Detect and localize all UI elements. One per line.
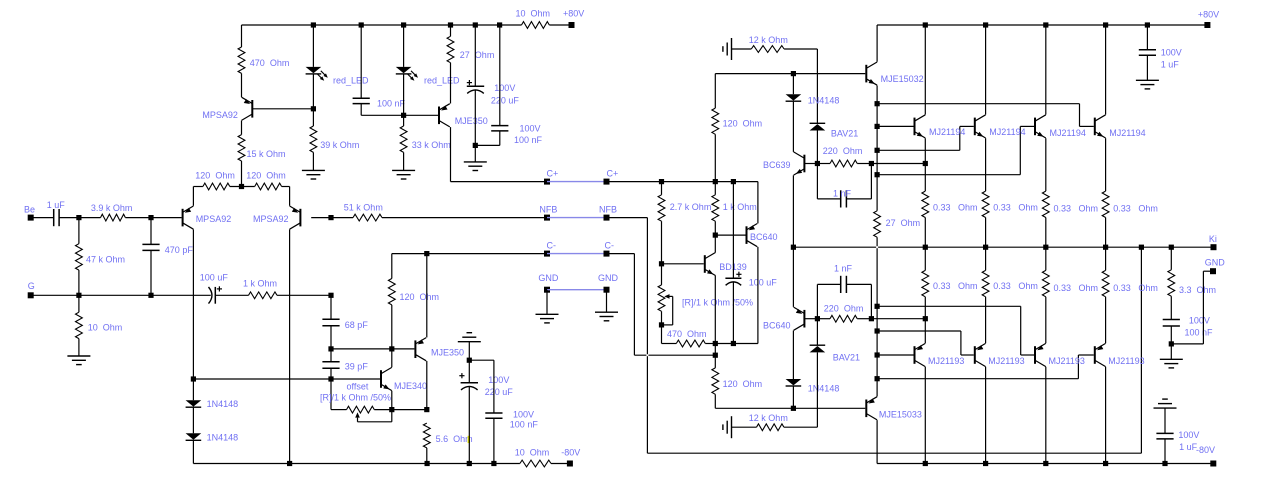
power terminal +80V (top left)	[563, 8, 584, 28]
resistor 47 k Ohm	[76, 244, 126, 270]
resistor 220 Ohm (top)	[823, 146, 863, 167]
ground (12k top, sideways)	[723, 38, 732, 60]
wire 2.7k to BD139 base node	[661, 221, 663, 264]
wire Ki to 3.3	[1170, 247, 1172, 270]
wire MJ21193 1 collector down	[924, 367, 926, 464]
wire 100uF to bias bottom	[732, 282, 734, 344]
wire 220 right	[857, 163, 871, 165]
wire Be to 1uF	[31, 217, 54, 219]
wire LED2 to node	[403, 74, 405, 115]
power terminal +80V (right)	[1198, 9, 1219, 28]
wire 1N4148b to base row	[792, 387, 794, 409]
highlight artifact (yellow)	[468, 436, 470, 443]
svg-text:0.33 Ohm: 0.33 Ohm	[1054, 204, 1099, 214]
wire 120 to base row bottom	[714, 394, 716, 408]
wire rail to -80V terminal	[551, 463, 570, 465]
svg-text:39 pF: 39 pF	[345, 362, 369, 372]
junction 68pF/VAS node	[328, 346, 333, 351]
wire MJE15032 collector to rail	[876, 25, 878, 62]
wire BD139 emitter down	[714, 276, 716, 344]
wire 15k to tail node	[241, 161, 243, 187]
junction Ki/col4	[1103, 245, 1108, 250]
ground (input)	[67, 356, 90, 365]
junction comp node	[328, 293, 333, 298]
diode BAV21 (top)	[810, 123, 859, 138]
wire rail to LED2	[403, 25, 405, 67]
svg-text:51 k Ohm: 51 k Ohm	[344, 203, 383, 213]
junction Ki/col2	[983, 245, 988, 250]
svg-text:120 Ohm: 120 Ohm	[723, 379, 763, 389]
wire 1uF to rail	[1164, 439, 1166, 464]
svg-text:-80V: -80V	[561, 448, 580, 458]
junction diff collector/base row	[191, 376, 196, 381]
ground (GND right)	[595, 312, 618, 321]
junction lower base 1	[875, 352, 880, 357]
wire node to ground	[1170, 344, 1172, 359]
capacitor 68 pF	[322, 319, 368, 330]
svg-text:5.6 Ohm: 5.6 Ohm	[436, 434, 473, 444]
capacitor 100 nF (top left)	[353, 98, 406, 108]
junction rail/Q5 collector	[287, 461, 292, 466]
ground (GND left)	[536, 314, 559, 323]
wire +80V rail (left)	[242, 24, 522, 26]
wire BC640 collector down	[757, 247, 759, 344]
wire 68pF to node	[330, 326, 332, 349]
wire between diodes	[192, 408, 194, 434]
resistor 2.7 k Ohm	[658, 195, 711, 221]
wire C- node to 120 bottom	[714, 355, 716, 368]
input terminal Be	[24, 205, 35, 221]
wire 100nF to LED2 node	[361, 114, 403, 116]
junction emitter/base 1	[875, 124, 880, 129]
wire MJ21193 4 emitter up	[1105, 297, 1107, 343]
output terminal Ki	[1209, 234, 1217, 250]
label [R]/1 k Ohm /50% (offset pot)	[320, 392, 391, 402]
junction BD139 collector node	[713, 233, 718, 238]
wire MJE340 emitter down	[391, 391, 393, 410]
svg-text:0.33 Ohm: 0.33 Ohm	[933, 281, 978, 291]
resistor 10 Ohm (+80V feed, top)	[516, 8, 551, 28]
svg-text:1 nF: 1 nF	[834, 264, 853, 274]
resistor 0.33 Ohm (top 4)	[1102, 191, 1158, 217]
wire comp node down	[330, 295, 332, 319]
ground (33k)	[392, 170, 415, 179]
wire rail to LED1	[312, 25, 314, 67]
ground (inverted, -80V cap)	[1154, 399, 1177, 408]
wire BD139 base row	[662, 263, 704, 265]
wire MJE350 emitter up	[426, 254, 428, 338]
wire offset node to pot	[331, 409, 347, 411]
wire 0.33 4 to Ki	[1105, 247, 1107, 270]
svg-text:GND: GND	[1205, 257, 1226, 267]
transistor MJ21193 Q19	[1095, 343, 1145, 366]
wire node to 47k	[78, 218, 80, 244]
svg-text:470 Ohm: 470 Ohm	[250, 58, 290, 68]
wire 27 Ohm through Ki to lower dots	[876, 237, 878, 306]
wire C- row	[392, 253, 547, 255]
wire 100nF to gnd node	[1170, 326, 1172, 344]
resistor 10 Ohm (-80V feed, bottom left)	[515, 448, 551, 467]
wire emitter row right	[282, 186, 290, 188]
transistor BD139 Q8 (bias spreader)	[705, 252, 747, 275]
svg-text:MJE350: MJE350	[431, 348, 464, 358]
transistor MJ21193 Q17	[975, 343, 1025, 366]
svg-text:red_LED: red_LED	[424, 76, 460, 86]
wire LED1 to base node	[312, 74, 314, 109]
wire BD139 collector up	[714, 235, 716, 252]
svg-text:0.33 Ohm: 0.33 Ohm	[1113, 283, 1158, 293]
wire node to ground	[474, 145, 476, 162]
svg-text:MPSA92: MPSA92	[196, 214, 232, 224]
ground (Zobel)	[1160, 359, 1183, 368]
wire rail to 470 Ohm	[241, 25, 243, 47]
wire node to 33k	[403, 115, 405, 126]
junction C+/1k	[713, 179, 718, 184]
wire gnd to 12kb	[732, 426, 757, 428]
junction rail/col4	[1103, 22, 1108, 27]
wire MJE350 collector down	[426, 361, 428, 410]
wire G to 10 Ohm	[78, 295, 80, 312]
junction railb/col1	[923, 461, 928, 466]
junction 220b/1nF right	[869, 316, 874, 321]
wire offset node down	[330, 379, 332, 410]
junction rail/5.6	[425, 461, 430, 466]
capacitor 1 uF 100V (-80V)	[1156, 430, 1199, 452]
wire BC639 base	[804, 163, 817, 165]
svg-text:27 Ohm: 27 Ohm	[886, 218, 921, 228]
ground (39k)	[302, 170, 325, 179]
svg-text:0.33 Ohm: 0.33 Ohm	[993, 281, 1038, 291]
capacitor 1 nF (top)	[833, 189, 852, 208]
svg-text:MPSA92: MPSA92	[202, 110, 238, 120]
resistor 12 k Ohm (top)	[749, 35, 788, 53]
resistor 27 Ohm (top)	[447, 36, 494, 62]
wire BC639 emitter down	[792, 175, 794, 247]
wire BC640L base	[804, 318, 817, 320]
svg-text:BC640: BC640	[763, 321, 791, 331]
resistor 120 Ohm (VAS load)	[388, 279, 439, 305]
wire pot to MJE340 emitter node	[374, 409, 392, 411]
resistor 3.3 Ohm (Zobel)	[1168, 270, 1216, 296]
wire NFB right	[607, 217, 648, 219]
wire NFB down	[646, 218, 648, 454]
net terminal C- (right)	[604, 241, 615, 257]
wire 3.9k to base node	[125, 217, 181, 219]
svg-text:100 nF: 100 nF	[1185, 328, 1214, 338]
svg-text:220 Ohm: 220 Ohm	[823, 146, 863, 156]
junction rail/col2	[983, 22, 988, 27]
power terminal -80V (right)	[1196, 445, 1216, 467]
transistor MJ21194 Q14	[1035, 115, 1086, 138]
junction top rail / LED1	[311, 22, 316, 27]
wire +80V rail (left, after 10 Ohm)	[549, 24, 571, 26]
junction railb/1uF	[1162, 461, 1167, 466]
transistor BC640 Q9 (upper)	[747, 224, 778, 247]
junction MJE350 emitter/C-	[424, 251, 429, 256]
svg-text:3.3 Ohm: 3.3 Ohm	[1179, 285, 1216, 295]
resistor 12 k Ohm (bottom)	[749, 413, 788, 431]
resistor 0.33 Ohm (top 2)	[982, 191, 1038, 217]
wire 100nF down	[360, 104, 362, 116]
wire 0.33 1 to Ki rail	[924, 218, 926, 248]
svg-text:+80V: +80V	[563, 8, 584, 18]
wire rail to 220uF	[474, 25, 476, 86]
svg-text:100 uF: 100 uF	[749, 278, 778, 288]
junction 5.6 node	[424, 407, 429, 412]
net terminal C+ (left)	[544, 169, 558, 185]
wire 1nF right leg	[870, 164, 872, 199]
svg-text:NFB: NFB	[599, 205, 617, 215]
capacitor 220 uF 100V (top, polarized)	[467, 80, 520, 106]
wire 220uF to rail	[468, 386, 470, 463]
junction 220 node/emitter col1	[923, 161, 928, 166]
wire MJE15032 emitter down	[876, 85, 878, 210]
svg-text:-80V: -80V	[1196, 445, 1215, 455]
svg-text:MJ21194: MJ21194	[989, 127, 1025, 137]
wire VAS node row	[331, 348, 414, 350]
capacitor 100 nF 100V (bottom)	[485, 409, 538, 429]
svg-text:[R]/1 k Ohm /50%: [R]/1 k Ohm /50%	[320, 392, 391, 402]
capacitor 100 uF (feedback shunt, polarized)	[200, 273, 229, 304]
svg-text:MJ21194: MJ21194	[1050, 128, 1086, 138]
wire 220b node to BAV21	[816, 319, 818, 346]
wire 0.33 3 to Ki rail	[1045, 218, 1047, 248]
wire 1N4148 to BC639 collector	[792, 102, 794, 152]
ground terminal G	[28, 281, 35, 298]
wire 39k to ground	[312, 152, 314, 170]
wire NFB up to Ki	[1140, 247, 1142, 453]
wire 0.33 2 to Ki rail	[985, 218, 987, 248]
junction offset node	[328, 376, 333, 381]
net terminal NFB (right)	[599, 205, 617, 221]
wire 12kb right	[784, 426, 818, 428]
svg-text:2.7 k Ohm: 2.7 k Ohm	[670, 202, 712, 212]
resistor 1 k Ohm (feedback)	[243, 279, 277, 299]
wire Zobel to GND link	[1171, 343, 1203, 345]
wire node to 5.6 node	[392, 409, 427, 411]
junction tail node	[239, 184, 244, 189]
svg-text:47 k Ohm: 47 k Ohm	[86, 255, 125, 265]
net terminal GND (output)	[1205, 257, 1226, 274]
wire 120 top corner	[714, 74, 716, 109]
wire BAV21b down	[816, 352, 818, 427]
wire rail4 down	[1079, 104, 1081, 127]
wire rail3 to base	[1020, 125, 1034, 127]
junction C- bias node	[713, 353, 718, 358]
svg-text:0.33 Ohm: 0.33 Ohm	[993, 203, 1038, 213]
net terminal C- (left)	[544, 241, 556, 257]
svg-text:470 Ohm: 470 Ohm	[667, 329, 707, 339]
junction G/470pF	[148, 293, 153, 298]
svg-text:0.33 Ohm: 0.33 Ohm	[1113, 204, 1158, 214]
svg-text:68 pF: 68 pF	[345, 320, 369, 330]
wire rail4b up	[1077, 355, 1079, 379]
net wire C+ (highlighted)	[547, 181, 607, 183]
wire MJ21194 4 emitter	[1105, 138, 1107, 191]
transistor MJ21193 Q18	[1035, 343, 1085, 366]
wire MJ21193 3 emitter up	[1045, 297, 1047, 343]
svg-text:C+: C+	[607, 169, 619, 179]
wire gnd to 12k	[732, 48, 752, 50]
svg-text:BAV21: BAV21	[833, 353, 860, 363]
wire 0.33 1 to Ki	[924, 247, 926, 270]
transistor MJE15032 Q11 (driver NPN)	[866, 62, 923, 85]
wire 120 to C+	[714, 134, 716, 181]
svg-text:0.33 Ohm: 0.33 Ohm	[1054, 283, 1099, 293]
svg-text:MJE350: MJE350	[455, 116, 488, 126]
resistor 120 Ohm (diff right)	[246, 171, 286, 190]
wire base node to pot	[661, 264, 663, 285]
svg-text:1 uF: 1 uF	[1179, 442, 1198, 452]
wire bias rows link	[714, 344, 716, 356]
junction top rail / 100nF	[359, 22, 364, 27]
wire 470 Ohm to Q1 emitter	[241, 73, 243, 97]
wire Q3 collector to C+ row	[450, 127, 452, 182]
wire C+ to 2.7k	[661, 182, 663, 195]
junction rail/100nF	[491, 461, 496, 466]
wire 33k to ground	[403, 152, 405, 170]
ground (+80V cap)	[1136, 80, 1159, 89]
wire MJ21193 2 collector down	[985, 367, 987, 464]
svg-text:470 pF: 470 pF	[165, 245, 194, 255]
ground (decoupling top)	[464, 162, 487, 171]
svg-text:BAV21: BAV21	[831, 129, 858, 139]
wire base rail 2 (top)	[877, 149, 960, 151]
capacitor 1 uF (input)	[47, 200, 66, 226]
wire node to 220uF	[468, 360, 470, 383]
net terminal C+ (right)	[604, 169, 619, 185]
wire rail3b down	[1020, 306, 1022, 355]
transistor MJ21194 Q13	[975, 115, 1026, 138]
wire MJ21194 2 collector	[985, 25, 987, 115]
junction C+/100uF	[731, 179, 736, 184]
svg-text:MJE340: MJE340	[394, 381, 427, 391]
wire MJ21193 2 emitter up	[985, 297, 987, 343]
svg-text:1N4148: 1N4148	[808, 384, 840, 394]
svg-text:27 Ohm: 27 Ohm	[460, 50, 495, 60]
svg-text:100 nF: 100 nF	[510, 420, 539, 430]
wire MJ21194 1 collector	[924, 25, 926, 115]
svg-text:120 Ohm: 120 Ohm	[723, 119, 763, 129]
wire corner to 470	[662, 343, 677, 345]
junction base row/1N4148b	[791, 406, 796, 411]
net wire C- (highlighted)	[547, 253, 607, 255]
junction LED2 node	[401, 113, 406, 118]
wire C- right	[607, 253, 635, 255]
svg-text:MJ21194: MJ21194	[1109, 128, 1145, 138]
wire 1uF to ground	[1146, 55, 1148, 80]
wire 470 to bias node	[705, 343, 715, 345]
wire 10 Ohm to ground	[78, 339, 80, 356]
wire 3.3 to 100nF	[1170, 296, 1172, 319]
resistor 10 Ohm (input gnd)	[76, 312, 123, 338]
no-connect crossing (white)	[876, 246, 878, 248]
wire MJ21194 3 collector	[1045, 25, 1047, 115]
transistor MJ21194 Q15	[1095, 115, 1146, 138]
svg-text:120 Ohm: 120 Ohm	[246, 171, 286, 181]
svg-text:1 uF: 1 uF	[1161, 60, 1180, 70]
svg-text:100V: 100V	[1189, 316, 1210, 326]
wire MJE340 collector up	[391, 349, 393, 367]
diode 1N4148 D4	[186, 432, 239, 442]
wire base rail 3 (bottom)	[877, 305, 1021, 307]
svg-text:0.33 Ohm: 0.33 Ohm	[933, 203, 978, 213]
svg-text:MPSA92: MPSA92	[253, 214, 289, 224]
wire 1nF left leg	[816, 164, 818, 199]
svg-text:1N4148: 1N4148	[207, 399, 239, 409]
junction base/470pF node	[148, 215, 153, 220]
LED red_LED D2	[396, 67, 460, 86]
svg-text:BC640: BC640	[750, 232, 778, 242]
junction 220uF top node	[467, 358, 472, 363]
junction 220b node/emitter col1	[923, 316, 928, 321]
wire Q1 base to LED node	[252, 108, 313, 110]
transistor MPSA92 Q4 (diff left)	[183, 206, 232, 229]
wire 100nF to rail	[493, 418, 495, 463]
wire MJE15033 collector down	[876, 420, 878, 463]
junction Ki/NFB	[1139, 245, 1144, 250]
junction 51k node	[328, 215, 333, 220]
net terminal GND (left)	[538, 273, 559, 293]
wire 1nF bottom left	[817, 198, 840, 200]
wire MJ21194 1 emitter	[924, 138, 926, 191]
resistor 0.33 Ohm (bottom 1)	[922, 270, 978, 296]
junction railb/col3	[1043, 461, 1048, 466]
wire MJ21193 4 collector down	[1105, 367, 1107, 464]
wire rail to 1uF top	[1146, 25, 1148, 50]
wire 1nFb top right	[847, 283, 872, 285]
wire BAV21 to 220 node	[816, 131, 818, 164]
wire emitter row left	[193, 186, 203, 188]
svg-text:10 Ohm: 10 Ohm	[516, 8, 551, 18]
wire C+ to BC640 emitter	[757, 182, 759, 224]
wire Q4 collector down	[192, 229, 194, 400]
diode BAV21 (bottom)	[810, 345, 860, 362]
wire BC640L collector down	[792, 331, 794, 380]
svg-text:red_LED: red_LED	[333, 76, 369, 86]
diode 1N4148 D3	[186, 399, 239, 409]
net terminal NFB (left)	[539, 205, 557, 221]
junction top rail / 220uF	[473, 22, 478, 27]
wire 47k to G row	[78, 270, 80, 295]
diode 1N4148 (bottom right)	[786, 379, 840, 394]
svg-text:1 k Ohm: 1 k Ohm	[723, 202, 757, 212]
capacitor 1 nF (bottom)	[834, 264, 853, 293]
capacitor 470 pF	[142, 244, 193, 255]
wire GND left stub	[546, 290, 548, 315]
svg-text:100 uF: 100 uF	[200, 273, 229, 283]
svg-text:1 nF: 1 nF	[833, 189, 852, 199]
capacitor 100 uF (bias, polarized)	[725, 272, 777, 288]
svg-text:MJ21193: MJ21193	[988, 356, 1024, 366]
junction top rail / 27 Ohm	[448, 22, 453, 27]
wire node to 39pF	[330, 349, 332, 362]
svg-text:220 uF: 220 uF	[491, 96, 520, 106]
capacitor 100 nF 100V (top right)	[491, 124, 542, 145]
svg-text:220 Ohm: 220 Ohm	[824, 303, 864, 313]
LED red_LED D1	[306, 67, 369, 86]
wire BC640 base	[715, 234, 745, 236]
svg-text:100V: 100V	[513, 409, 534, 419]
resistor 0.33 Ohm (bottom 4)	[1102, 270, 1158, 296]
wire lower emitter column	[876, 306, 878, 396]
wire MJE15033 base row	[715, 407, 865, 409]
wire center tail	[230, 186, 255, 188]
svg-text:C-: C-	[547, 241, 557, 251]
potentiometer 1 k (offset)	[347, 406, 392, 422]
wire 220b lead	[817, 318, 830, 320]
svg-text:BC639: BC639	[763, 160, 791, 170]
